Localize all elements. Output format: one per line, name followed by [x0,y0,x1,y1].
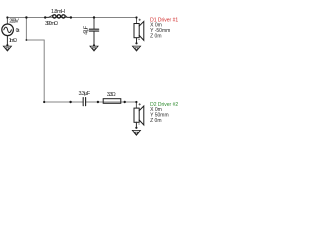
label D2 plus [139,103,141,105]
wire source bottom [6,36,8,46]
wire capacitor C1 to ground [93,32,95,46]
inductor L1 left lead [45,15,53,17]
junction dot L1 right [70,16,72,18]
wire branch vertical long [43,40,45,102]
wire driver D2 to ground [135,122,137,128]
svg-text:0s: 0s [16,28,20,34]
ground D2 [132,130,140,135]
junction dot C2 left [69,101,71,103]
svg-text:1mΩ: 1mΩ [9,38,17,44]
resistor R1 box [103,99,121,104]
label D1 minus [138,39,139,41]
inductor L1 right lead [65,15,71,17]
voltage source V1 circle [2,24,14,36]
wire top main [7,17,136,19]
svg-text:3.3Ω: 3.3Ω [107,92,116,98]
svg-text:390mΩ: 390mΩ [45,21,58,27]
wire branch jog horizontal [26,39,44,41]
junction dot C2 right [97,101,99,103]
wire capacitor C1 drop [93,18,95,29]
wire driver D1 to ground [136,38,138,44]
wire driver D1 riser [136,18,138,24]
label D2 minus [138,123,139,125]
junction dot source top [6,16,8,18]
svg-text:3.3µF: 3.3µF [79,91,91,97]
ground source [3,46,11,51]
driver D2 magnet box [134,108,139,122]
junction dot C1 top [93,16,95,18]
svg-text:2.83V: 2.83V [9,19,19,25]
wire bottom main [44,101,136,103]
wire branch vertical upper [25,18,27,41]
driver D2 cone [139,106,144,125]
junction dot D2 corner [135,101,137,103]
junction dot R1 right [124,101,126,103]
wire source riser [6,18,8,25]
capacitor C1 plates [89,29,98,31]
capacitor C2 gap blank [84,100,85,105]
capacitor C2 plates [83,98,85,106]
svg-text:Z 0m: Z 0m [150,118,161,124]
svg-text:Z 0m: Z 0m [150,33,161,39]
junction dot source bottom [6,44,8,46]
ground C1 [90,46,98,51]
junction dot branch [25,16,27,18]
ground D1 [132,46,140,51]
junction dot L1 left [44,16,46,18]
label D1 plus [139,19,141,21]
svg-text:47µF: 47µF [83,25,89,35]
junction dot D1 bottom [135,42,137,44]
junction dot C1 bottom [93,44,95,46]
junction dot jog corner [26,39,28,41]
junction dot D1 corner [135,16,137,18]
inductor L1 coils [53,15,65,18]
wire driver D2 riser [135,102,137,108]
voltage source sine [4,27,12,32]
junction dot D2 bottom [135,127,137,129]
driver D1 cone [139,21,144,40]
svg-text:1.8mH: 1.8mH [51,9,65,15]
driver D1 magnet box [134,24,139,38]
junction dot bottom corner [43,101,45,103]
